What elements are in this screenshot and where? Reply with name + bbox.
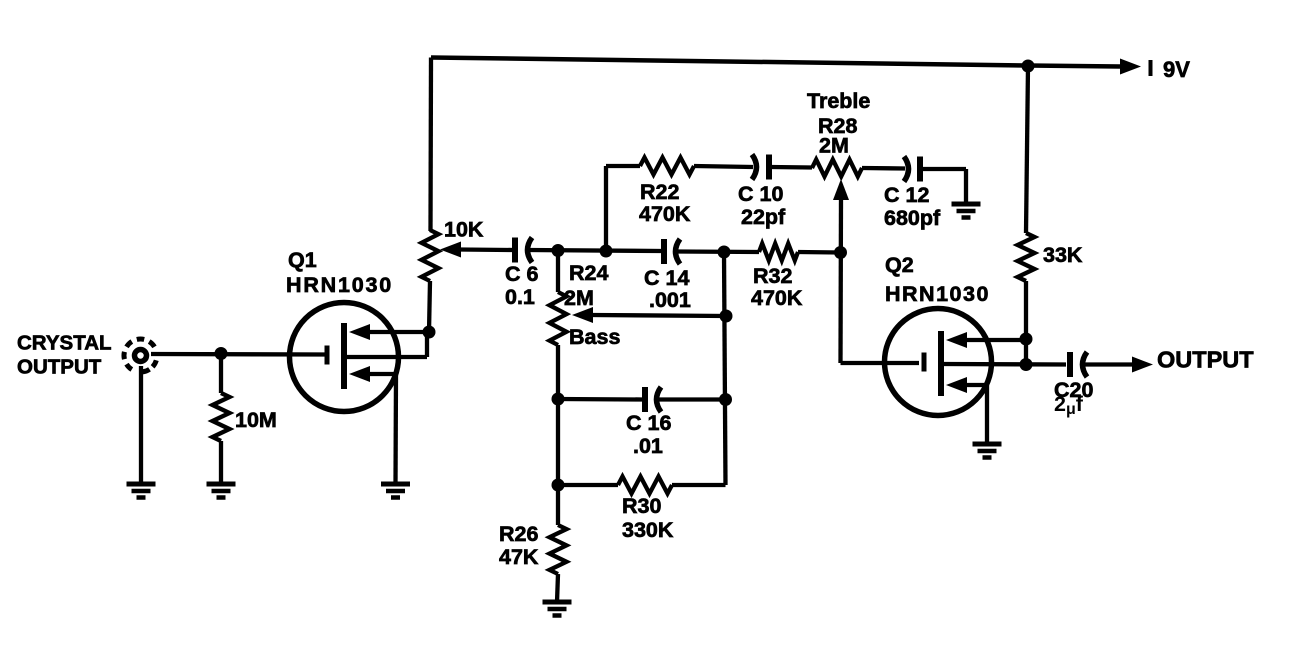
transistor Q1 body circle: [290, 303, 399, 412]
svg-text:2M: 2M: [564, 286, 594, 310]
arrow +9V terminal: [1120, 59, 1141, 75]
node input junction: [215, 347, 228, 360]
wire Q2 gate lead: [841, 361, 920, 365]
wire C14 to R32: [677, 249, 759, 254]
ground at R26: [543, 602, 572, 616]
10K wiper arrow: [440, 242, 461, 258]
svg-text:47K: 47K: [499, 545, 539, 569]
node Q2 drain junction: [1020, 333, 1033, 346]
wire input line jack to Q1 gate: [151, 352, 325, 357]
ground at 10M: [207, 484, 236, 498]
node output junction: [1020, 358, 1033, 371]
wire Q1 source: [364, 374, 396, 484]
wire 10M top lead: [219, 353, 223, 393]
wire C20 to output arrow: [1085, 362, 1132, 366]
svg-text:C 16: C 16: [626, 411, 671, 435]
wire rail drop to 10K: [428, 58, 433, 232]
capacitor C10: [752, 155, 769, 180]
wire R28 wiper down to Q2 gate node: [838, 196, 843, 363]
arrow OUTPUT terminal: [1132, 357, 1153, 373]
capacitor C14: [664, 239, 680, 264]
label C16: [626, 411, 671, 458]
Q1 channel bar: [341, 323, 347, 389]
svg-text:CRYSTAL: CRYSTAL: [17, 332, 112, 355]
wire C10 to R28: [771, 165, 812, 170]
node +9V rail junction: [1022, 60, 1035, 73]
R24 bass wiper arrow: [572, 307, 593, 323]
wire Q2 source: [961, 385, 987, 444]
wire C16 left: [558, 397, 642, 402]
wire 10M bottom lead: [219, 441, 223, 484]
Q2 drain arrow: [946, 332, 967, 348]
capacitor C16: [645, 387, 661, 412]
label 10M value: [235, 408, 277, 432]
label C6: [505, 262, 539, 309]
svg-text:R24: R24: [569, 261, 608, 285]
node C6-R24 junction: [552, 244, 565, 257]
svg-text:OUTPUT: OUTPUT: [1157, 347, 1254, 373]
Q1 drain arrow: [349, 324, 370, 340]
label Q2: [885, 253, 914, 277]
capacitor C12: [904, 157, 920, 182]
node C16 right junction: [719, 393, 732, 406]
wire 10K wiper to C6: [459, 247, 513, 252]
svg-text:.01: .01: [633, 434, 663, 458]
svg-text:R22: R22: [640, 180, 679, 204]
potentiometer R24: [550, 292, 567, 345]
label R32: [751, 264, 803, 310]
potentiometer R24 top lead: [556, 250, 560, 292]
label R24: [564, 261, 608, 310]
wire R26 to ground: [557, 574, 558, 602]
resistor R22: [640, 158, 694, 175]
Q2 channel bar: [938, 331, 944, 396]
svg-text:9V: 9V: [1163, 57, 1190, 82]
svg-text:330K: 330K: [622, 518, 674, 542]
label R22: [639, 180, 691, 226]
svg-text:C 10: C 10: [738, 182, 783, 206]
wire C16 right: [658, 397, 726, 401]
svg-text:2M: 2M: [819, 134, 849, 158]
svg-text:10K: 10K: [444, 218, 484, 242]
resistor 10M: [213, 393, 230, 441]
svg-text:Treble: Treble: [807, 89, 870, 113]
resistor R26 top lead: [556, 485, 560, 525]
ground at Q1 source: [381, 484, 410, 498]
potentiometer 10K: [422, 230, 439, 281]
label +9V: [1151, 57, 1191, 82]
svg-text:470K: 470K: [751, 286, 803, 310]
svg-text:HRN1030: HRN1030: [885, 282, 990, 306]
label OUTPUT: [1157, 347, 1254, 373]
potentiometer R28: [812, 160, 862, 177]
label 10K value: [444, 218, 484, 242]
svg-text:R26: R26: [499, 522, 538, 546]
svg-text:Q1: Q1: [288, 248, 317, 272]
svg-text:C 14: C 14: [644, 266, 689, 290]
wire jack to ground stem: [139, 366, 143, 484]
label R26: [499, 522, 539, 569]
label C20: [1054, 378, 1093, 418]
label 33K value: [1043, 243, 1083, 267]
crystal input jack J1: [124, 339, 156, 372]
wire Q2 drain: [961, 338, 1026, 342]
node R22 branch junction: [600, 245, 613, 258]
resistor R30: [618, 477, 672, 494]
wire top branch left: [606, 164, 640, 168]
wire +9V supply rail: [431, 58, 1120, 67]
node R30 left junction: [552, 479, 565, 492]
node R24-C16 junction: [552, 393, 565, 406]
label R30: [622, 494, 674, 542]
Q2 gate bar: [922, 353, 927, 372]
node bass wiper junction: [720, 310, 733, 323]
svg-text:470K: 470K: [639, 202, 691, 226]
svg-text:C 12: C 12: [884, 183, 929, 207]
label CRYSTAL OUTPUT: [17, 332, 112, 379]
svg-text:.001: .001: [649, 288, 691, 312]
svg-text:R30: R30: [622, 494, 661, 518]
label Q1 type HRN1030: [286, 273, 393, 297]
capacitor C20: [1070, 352, 1087, 377]
label C14: [644, 266, 691, 312]
wire 33K to Q2 drain: [1024, 281, 1028, 365]
Q2 substrate pin wire: [944, 362, 1066, 367]
svg-text:10M: 10M: [235, 408, 277, 432]
svg-text:33K: 33K: [1043, 243, 1083, 267]
wire 10K to Q1 drain node: [429, 281, 430, 332]
node R32-R28 junction: [834, 246, 847, 259]
node Q1 drain junction: [423, 326, 436, 339]
Q1 substrate pin wire: [347, 331, 427, 357]
wire C12 to ground: [922, 169, 966, 204]
wire bass wiper: [591, 315, 726, 316]
Q1 source arrow: [349, 366, 370, 382]
svg-text:HRN1030: HRN1030: [286, 273, 393, 297]
Q2 source arrow: [946, 377, 967, 393]
svg-text:Bass: Bass: [569, 325, 620, 349]
R28 wiper arrow: [833, 179, 849, 200]
ground at C12: [952, 204, 981, 218]
svg-text:22pf: 22pf: [741, 205, 786, 229]
label Q2 type HRN1030: [885, 282, 990, 306]
svg-text:OUTPUT: OUTPUT: [17, 356, 102, 379]
wire R22 branch riser: [604, 166, 608, 251]
capacitor C6: [515, 238, 532, 263]
wire R22 to C10: [694, 166, 753, 167]
label Q1: [288, 248, 317, 272]
svg-text:C 6: C 6: [505, 262, 539, 286]
ground at jack: [127, 484, 156, 498]
label C12: [884, 183, 941, 230]
wire rail drop to 33K: [1026, 66, 1028, 233]
wire R28 to C12: [862, 166, 905, 171]
Q1 gate bar: [325, 346, 330, 365]
wire R32 to R28 wiper line: [798, 250, 840, 255]
label C10: [738, 182, 786, 229]
wire C16 branch riser: [724, 252, 726, 485]
svg-text:Q2: Q2: [885, 253, 914, 277]
wire Q1 drain to node: [364, 330, 429, 334]
transistor Q2 body circle: [885, 309, 992, 416]
label Treble R28: [807, 89, 870, 158]
wire C6 to C14: [529, 250, 661, 251]
resistor R26: [550, 525, 567, 574]
svg-text:R32: R32: [753, 264, 792, 288]
label Bass: [569, 325, 620, 349]
svg-text:0.1: 0.1: [505, 285, 535, 309]
svg-text:680pf: 680pf: [884, 206, 941, 230]
wire R30 right lead: [672, 483, 726, 487]
wire R24 bottom lead: [556, 345, 560, 485]
resistor 33K: [1018, 233, 1035, 281]
node C14-C16 branch junction: [718, 246, 731, 259]
wire R30 left lead: [558, 483, 618, 487]
ground at Q2 source: [973, 444, 1002, 458]
resistor R32: [759, 244, 798, 261]
